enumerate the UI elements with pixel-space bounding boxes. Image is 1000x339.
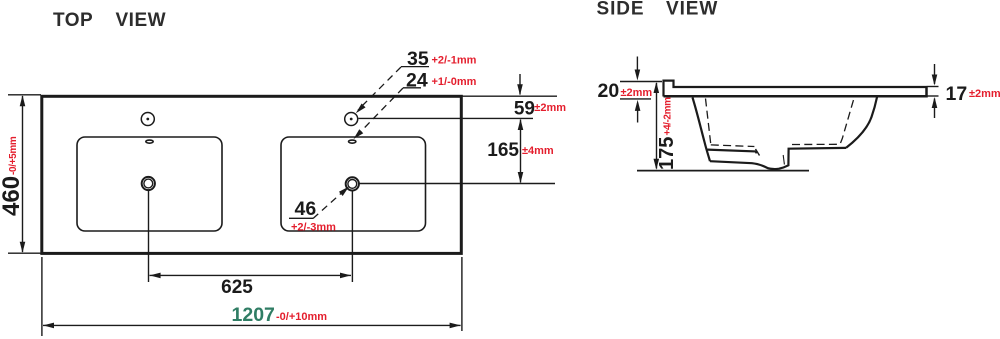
svg-text:59: 59 (514, 99, 535, 120)
svg-text:+1/-0mm: +1/-0mm (432, 76, 477, 88)
svg-text:+2/-1mm: +2/-1mm (432, 55, 477, 67)
svg-text:17: 17 (946, 83, 968, 105)
svg-text:±2mm: ±2mm (534, 102, 566, 114)
svg-text:20: 20 (598, 80, 620, 102)
svg-text:-0/+10mm: -0/+10mm (276, 311, 327, 323)
svg-text:175: 175 (656, 137, 678, 170)
svg-text:±2mm: ±2mm (621, 87, 653, 99)
svg-text:1207: 1207 (232, 304, 275, 326)
svg-text:SIDEVIEW: SIDEVIEW (597, 0, 719, 19)
svg-text:46: 46 (295, 198, 317, 220)
svg-text:+4/-2mm: +4/-2mm (663, 97, 674, 136)
svg-text:165: 165 (487, 140, 519, 161)
svg-text:-0/+5mm: -0/+5mm (8, 136, 19, 175)
svg-text:±2mm: ±2mm (969, 88, 1000, 100)
svg-text:+2/-3mm: +2/-3mm (291, 222, 336, 234)
svg-text:±4mm: ±4mm (522, 145, 554, 157)
svg-text:460: 460 (0, 176, 25, 216)
svg-text:625: 625 (221, 277, 253, 298)
svg-text:TOPVIEW: TOPVIEW (53, 10, 166, 31)
